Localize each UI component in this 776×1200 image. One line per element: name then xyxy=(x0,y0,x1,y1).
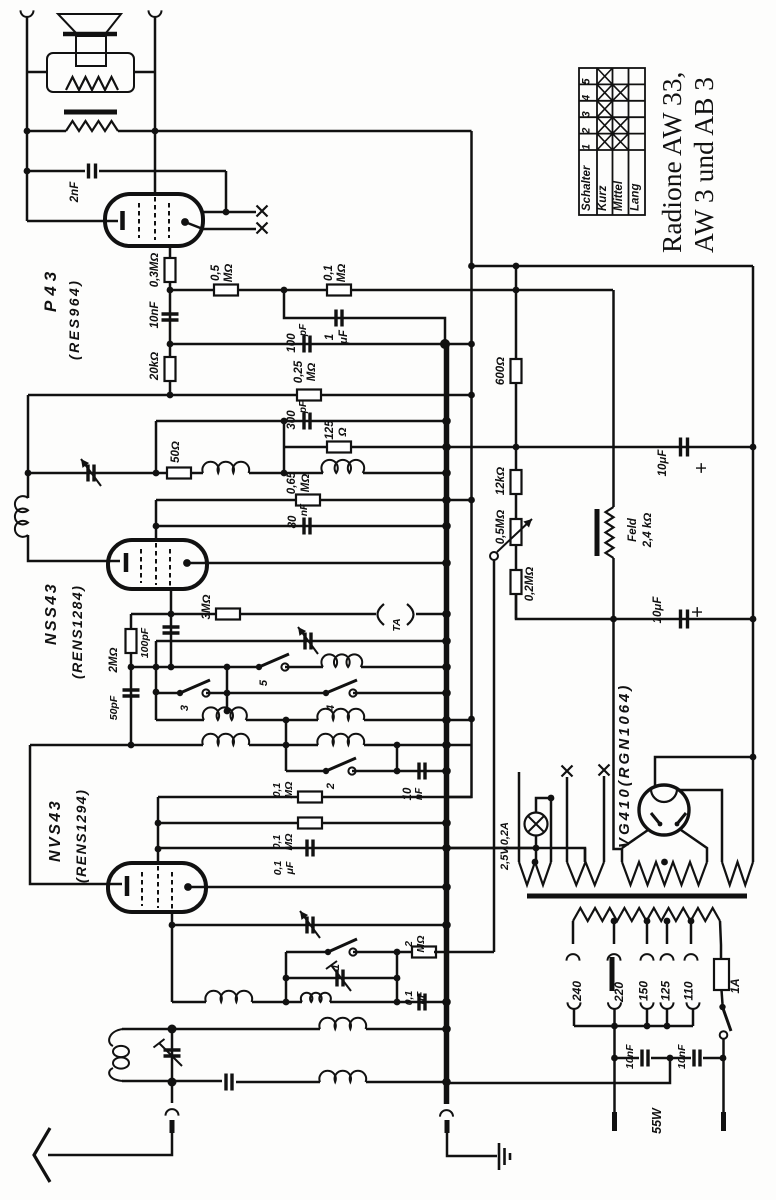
wire speaker right xyxy=(134,71,155,74)
node bus/526 xyxy=(442,522,451,531)
switch 5 xyxy=(256,664,262,670)
wire v516 chain xyxy=(515,266,518,619)
P43 screen wire xyxy=(203,211,256,214)
transformer primary winding xyxy=(573,908,720,921)
output transformer primary winding xyxy=(66,77,118,90)
node bus/720 xyxy=(442,716,451,725)
wire py131 B+ rail to right xyxy=(27,130,66,133)
svg-text:0,5MΩ: 0,5MΩ xyxy=(495,510,507,545)
node 158/849 xyxy=(155,846,162,853)
wire lamp winding left lead xyxy=(518,772,521,862)
wire mains lead 2 xyxy=(613,1026,616,1112)
wire tap 150 xyxy=(646,921,649,944)
wire py849 0,1uF row / lamp ground xyxy=(158,848,585,862)
chassis bus (thick) xyxy=(444,344,450,1104)
node bus/925 xyxy=(442,921,451,930)
node 614/1026 xyxy=(611,1023,618,1030)
capacitor 10nF (band) xyxy=(419,763,425,780)
capacitor 0,1uF osc xyxy=(419,994,425,1011)
resistor 0,65MOhm xyxy=(296,495,320,506)
node bus/473 xyxy=(442,469,451,478)
coil row py720 xyxy=(156,719,204,722)
capacitor 300pF xyxy=(304,413,310,430)
svg-text:150: 150 xyxy=(637,981,651,1001)
terminal top (grid lead) xyxy=(149,10,162,16)
wire NVS anode to bus xyxy=(188,886,447,889)
trimmer capacitor osc xyxy=(337,970,343,987)
svg-text:10nF: 10nF xyxy=(149,301,161,329)
wire v284a xyxy=(283,421,286,447)
wire py1058 10nF row xyxy=(615,1057,640,1060)
rectifier tube VG410 (RGN1064) xyxy=(639,785,689,835)
wire tap 220 xyxy=(613,921,616,944)
node bus/848 xyxy=(442,844,451,853)
capacitor 50pF xyxy=(123,690,140,696)
node bus/667 xyxy=(442,663,451,672)
wire fuse to switch xyxy=(722,990,723,1004)
node bus/887 xyxy=(442,883,451,892)
heater X lead 1 xyxy=(562,766,573,777)
wire tap 110 xyxy=(690,921,693,944)
node 397/1002 xyxy=(394,999,401,1006)
mains terminal 1 xyxy=(721,1112,726,1131)
wire Feld bottom xyxy=(614,558,623,862)
svg-text:MΩ: MΩ xyxy=(415,936,427,953)
svg-text:220: 220 xyxy=(612,982,626,1003)
node 171/614 xyxy=(168,611,175,618)
wire 20k chain xyxy=(169,344,172,395)
wire VG410 anode left xyxy=(622,830,648,848)
svg-text:1A: 1A xyxy=(728,978,742,993)
coil L6 xyxy=(319,1018,366,1029)
tube NSS43 envelope xyxy=(108,540,207,589)
svg-text:2,5V,0,2A: 2,5V,0,2A xyxy=(499,822,511,871)
wire 0,2M to 10uF2 xyxy=(516,594,753,619)
tap socket 110 xyxy=(687,1002,700,1009)
wire NSS grid v156b xyxy=(155,500,158,540)
variable capacitor mixer xyxy=(307,917,313,934)
node 156/667 xyxy=(153,664,160,671)
svg-text:0,1: 0,1 xyxy=(323,265,335,281)
svg-text:0,1: 0,1 xyxy=(272,861,284,876)
svg-text:(RENS1284): (RENS1284) xyxy=(69,585,85,679)
coil L4b xyxy=(317,734,364,745)
wire 2nF to screen xyxy=(225,171,228,212)
svg-text:3: 3 xyxy=(581,111,593,117)
svg-text:NSS43: NSS43 xyxy=(43,582,60,645)
svg-text:20kΩ: 20kΩ xyxy=(149,352,161,381)
svg-text:50pF: 50pF xyxy=(108,695,120,720)
svg-text:4: 4 xyxy=(581,95,593,102)
node W3 center tap xyxy=(661,859,668,866)
wire to ground xyxy=(447,1133,497,1156)
node 131/745 xyxy=(128,742,135,749)
node tap 125 xyxy=(664,918,671,925)
node 753/619 xyxy=(750,616,757,623)
node bus/421 xyxy=(442,417,451,426)
node bus/563 xyxy=(442,559,451,568)
svg-text:0,65: 0,65 xyxy=(286,471,298,494)
node 2nF left xyxy=(24,168,31,175)
svg-text:Schalter: Schalter xyxy=(581,165,593,211)
svg-text:P43: P43 xyxy=(41,267,60,312)
wire py500 0,65M row xyxy=(156,499,447,502)
wire py395 row xyxy=(28,394,472,397)
resistor 0,2MOhm xyxy=(511,570,522,594)
svg-text:10nF: 10nF xyxy=(624,1044,636,1069)
node 286/720 xyxy=(283,717,290,724)
svg-text:pF: pF xyxy=(298,323,309,337)
transformer winding W2 (heater) xyxy=(567,862,604,885)
svg-text:VG410(RGN1064): VG410(RGN1064) xyxy=(616,683,633,848)
node 156/473 xyxy=(153,470,160,477)
node bus/641 xyxy=(442,637,451,646)
switch 3 xyxy=(177,690,183,696)
node 284/421 xyxy=(281,418,288,425)
node 28/473 xyxy=(25,470,32,477)
node tap 150 xyxy=(644,918,651,925)
heater terminal X2 xyxy=(257,223,268,234)
wire py1029 row xyxy=(122,1028,320,1031)
wire NSS cathode xyxy=(28,535,120,561)
svg-text:NVS43: NVS43 xyxy=(47,799,64,862)
svg-text:+: + xyxy=(687,606,709,618)
antenna terminal xyxy=(171,1082,174,1103)
svg-text:2nF: 2nF xyxy=(69,181,81,203)
wire to fuse xyxy=(720,921,721,959)
wire 1uF branch xyxy=(284,290,445,344)
wire v471 (from 131 down) xyxy=(447,131,472,797)
wire py847 heater ground xyxy=(447,847,537,850)
node bus/1002 xyxy=(442,998,451,1007)
wire NSS anode to bus xyxy=(187,562,447,565)
node 172/925 xyxy=(169,922,176,929)
loudspeaker LS cone xyxy=(58,14,121,33)
node 172/1029 xyxy=(168,1025,177,1034)
svg-text:2: 2 xyxy=(403,941,415,948)
svg-text:2: 2 xyxy=(581,128,593,135)
svg-text:0,1: 0,1 xyxy=(271,783,283,798)
svg-text:0,3MΩ: 0,3MΩ xyxy=(149,253,161,288)
wire py266 B+ top xyxy=(472,265,754,268)
capacitor 80nF xyxy=(304,518,310,535)
node 397/745 xyxy=(394,742,401,749)
wire v227 tap xyxy=(226,667,229,712)
svg-text:300: 300 xyxy=(286,410,298,430)
wire v156a xyxy=(155,421,158,473)
node screen junction xyxy=(223,209,230,216)
node 131/667 xyxy=(128,664,135,671)
wire py925 varcap row xyxy=(172,924,447,927)
svg-text:nF: nF xyxy=(299,503,310,516)
resistor 0,1MOhm b xyxy=(298,818,322,829)
node 516/266 xyxy=(513,263,520,270)
wire py978 trimmer row xyxy=(286,977,397,980)
node bus/614 xyxy=(442,610,451,619)
svg-text:125: 125 xyxy=(324,420,336,440)
transformer winding W1 (lamp) xyxy=(519,862,551,885)
node 647/1026 xyxy=(644,1023,651,1030)
node tap 110 xyxy=(688,918,695,925)
bus terminal xyxy=(440,1110,453,1117)
svg-text:Mittel: Mittel xyxy=(613,180,625,211)
P43 cathode xyxy=(120,211,125,230)
variable capacitor (NSS input) xyxy=(27,472,30,475)
wire py1082 row xyxy=(122,1080,222,1083)
svg-text:10μF: 10μF xyxy=(657,449,669,477)
wire pot wiper down xyxy=(493,560,496,952)
node 156/526 xyxy=(153,523,160,530)
wire v286b xyxy=(285,952,288,1002)
svg-text:5: 5 xyxy=(581,78,593,85)
svg-text:110: 110 xyxy=(682,981,696,1000)
field coil Feld 2,4kOhm xyxy=(606,507,614,558)
node 753/757 xyxy=(750,754,757,761)
coil L7 xyxy=(319,1071,366,1082)
wire tap bottoms row xyxy=(574,1025,693,1028)
NSS43 grids (dashed) xyxy=(141,543,170,589)
svg-text:Ω: Ω xyxy=(337,427,349,437)
node 284/290 xyxy=(281,287,288,294)
wire tap 125 xyxy=(666,921,669,944)
switch table (Schalter/Kurz/Mittel/Lang) xyxy=(579,68,645,215)
wire v753 right B+ rail xyxy=(752,266,755,862)
svg-text:100: 100 xyxy=(286,333,298,353)
wire py952 switch1 row xyxy=(286,951,328,954)
svg-text:TA: TA xyxy=(391,618,403,631)
wire NVS outer loop xyxy=(30,745,122,884)
terminal ANT1 top-left xyxy=(21,10,34,16)
resistor 600Ohm xyxy=(511,359,522,383)
transformer core xyxy=(527,894,747,899)
resistor 3MOhm xyxy=(216,609,240,620)
capacitor 100pF xyxy=(304,336,310,353)
node 471/395 xyxy=(468,392,475,399)
node 753/447 xyxy=(750,444,757,451)
wire py641 varcap row xyxy=(156,640,447,643)
wire VG410 filament lead A xyxy=(655,757,753,788)
svg-text:0,2MΩ: 0,2MΩ xyxy=(524,567,536,602)
svg-text:2,4 kΩ: 2,4 kΩ xyxy=(642,513,654,549)
resistor 0,25MOhm xyxy=(297,390,321,401)
P43 anode xyxy=(181,218,189,226)
P43 grids (dashed) xyxy=(139,197,169,240)
node bus top xyxy=(440,339,450,349)
svg-text:10μF: 10μF xyxy=(652,596,664,624)
node 286/745 xyxy=(283,742,290,749)
wire py344 100pF row xyxy=(170,343,472,346)
capacitor 10nF mains b xyxy=(694,1050,700,1067)
fuse 1A xyxy=(714,959,729,990)
output transformer core xyxy=(64,110,117,115)
wire py447 row xyxy=(284,446,753,449)
capacitor 10nF xyxy=(162,314,179,320)
wire VG410 anode right xyxy=(681,830,707,862)
resistor 12kOhm xyxy=(511,470,522,494)
tap socket 150 xyxy=(641,1002,654,1009)
node 158/823 xyxy=(155,820,162,827)
wire speaker left xyxy=(27,71,47,74)
node 670/1058 xyxy=(667,1055,674,1062)
coil L4a xyxy=(202,734,249,745)
tap socket 240 xyxy=(568,1002,581,1009)
svg-text:MΩ: MΩ xyxy=(336,264,348,283)
wire 284 link xyxy=(283,447,286,473)
transformer winding W4 (rect filament) xyxy=(722,862,753,885)
node W1 tap xyxy=(532,859,539,866)
svg-text:55W: 55W xyxy=(650,1107,664,1134)
capacitor 100pF NSS grid xyxy=(163,627,180,633)
capacitor 0,1uF xyxy=(307,840,313,857)
wire NSS bottom xyxy=(170,589,173,667)
node 156/692 xyxy=(153,689,160,696)
node 551/798 xyxy=(548,795,555,802)
switch 1 xyxy=(325,949,331,955)
svg-text:Lang: Lang xyxy=(630,184,642,211)
capacitor 1uF xyxy=(336,310,342,327)
node 471/500 xyxy=(468,497,475,504)
wire py421 300pF row xyxy=(156,420,447,423)
svg-text:pF: pF xyxy=(298,400,309,414)
wire 2M top xyxy=(130,614,133,667)
NVS43 cathode xyxy=(125,876,130,896)
wire VG410 filament lead B xyxy=(679,790,722,862)
svg-text:240: 240 xyxy=(570,981,584,1002)
svg-text:80: 80 xyxy=(287,515,299,528)
antenna coil left xyxy=(15,496,28,537)
resistor 50Ohm xyxy=(167,468,191,479)
node 471/344 xyxy=(468,341,475,348)
wire P43 bottom to R chain xyxy=(169,246,172,259)
wire v613 Feld chain xyxy=(612,290,615,507)
wire py823 0,1M row b xyxy=(158,822,447,825)
wire lamp bottom xyxy=(535,836,538,863)
TA input symbol xyxy=(378,604,385,625)
resistor 2MOhm osc xyxy=(412,947,436,958)
mains terminal 2 xyxy=(612,1112,617,1131)
svg-text:600Ω: 600Ω xyxy=(495,357,507,385)
svg-text:Feld: Feld xyxy=(627,517,639,542)
output transformer frame xyxy=(47,53,134,92)
node 397/952 xyxy=(394,949,401,956)
transformer winding W3 (HV) xyxy=(622,862,707,885)
capacitor 10nF mains a xyxy=(642,1050,648,1067)
node bus/500 xyxy=(442,496,451,505)
pilot lamp 2,5V 0,2A xyxy=(525,813,548,836)
svg-text:3MΩ: 3MΩ xyxy=(201,595,213,620)
tap socket 125 xyxy=(661,1002,674,1009)
resistor 0,1MOhm top xyxy=(327,285,351,296)
ferrite antenna coil xyxy=(109,1029,123,1046)
wire py473 row xyxy=(28,472,167,475)
NVS43 anode xyxy=(184,883,192,891)
node 471/720 xyxy=(468,716,475,723)
coil L1b xyxy=(321,460,364,473)
svg-text:50Ω: 50Ω xyxy=(170,441,182,463)
wire left rail NSS xyxy=(27,395,30,498)
variable capacitor osc xyxy=(305,633,311,650)
svg-text:0,1: 0,1 xyxy=(403,991,415,1006)
svg-text:0,5: 0,5 xyxy=(210,264,222,281)
wire lamp winding right lead xyxy=(550,798,553,862)
node 613/619 xyxy=(610,616,617,623)
switch 4 xyxy=(323,690,329,696)
node 614/1058 xyxy=(611,1055,618,1062)
tube NVS43 envelope xyxy=(108,863,206,912)
tap socket 220 xyxy=(608,1002,621,1009)
node 723/1058 xyxy=(720,1055,727,1062)
coil row py1002 xyxy=(172,1001,206,1004)
svg-text:100pF: 100pF xyxy=(139,627,151,658)
node 171/667 xyxy=(168,664,175,671)
NSS43 anode xyxy=(183,559,191,567)
node tap 220 xyxy=(611,918,618,925)
svg-text:μF: μF xyxy=(338,329,350,345)
svg-text:Radione AW 33,: Radione AW 33, xyxy=(656,72,687,253)
ground symbol xyxy=(498,1143,501,1170)
wire 10nF mid to bus xyxy=(447,1058,671,1083)
svg-text:MΩ: MΩ xyxy=(306,363,318,382)
svg-text:2: 2 xyxy=(325,783,337,790)
node 284/473 xyxy=(281,470,288,477)
wire switch down xyxy=(722,1039,725,1112)
wire NVS grid v158 xyxy=(157,797,160,863)
svg-text:12kΩ: 12kΩ xyxy=(495,467,507,495)
wire NVS bottom xyxy=(171,912,174,1002)
wire v286a xyxy=(285,720,288,771)
node 397/978 xyxy=(394,975,401,982)
tap 220 selector bar xyxy=(610,957,615,991)
wire py797 0,1M row xyxy=(158,796,472,799)
wire lamp top xyxy=(536,798,551,813)
capacitor 2nF xyxy=(27,170,85,173)
coil L2 xyxy=(321,654,362,667)
output transformer secondary winding xyxy=(66,121,118,131)
potentiometer 0,5MOhm xyxy=(511,519,522,545)
svg-text:(RENS1294): (RENS1294) xyxy=(73,789,89,883)
node rail-131 left xyxy=(24,128,31,135)
NVS43 grids (dashed) xyxy=(142,866,172,912)
wire W2 center tap xyxy=(584,848,587,862)
svg-text:(RES964): (RES964) xyxy=(66,279,82,360)
svg-text:μF: μF xyxy=(415,991,427,1005)
resistor 125Ohm xyxy=(327,442,351,453)
resistor 2MOhm NSS xyxy=(126,629,137,653)
node 227/693 xyxy=(224,690,231,697)
node coil tap xyxy=(224,708,231,715)
heater terminal X1 xyxy=(257,206,268,217)
resistor 0,3MOhm xyxy=(165,258,176,282)
wire py526 80nF row xyxy=(156,525,447,528)
svg-text:125: 125 xyxy=(659,981,673,1001)
wire tap 240 xyxy=(572,921,575,944)
wire py667 row xyxy=(131,666,259,669)
mains switch xyxy=(719,1004,725,1010)
svg-text:2MΩ: 2MΩ xyxy=(108,648,120,674)
switch 2 xyxy=(323,768,329,774)
node bus/771 xyxy=(442,767,451,776)
tuning trimmer capacitor xyxy=(171,1029,174,1082)
heater X lead 2 xyxy=(599,765,610,776)
wire py771 switch2 row xyxy=(286,770,326,773)
svg-text:10nF: 10nF xyxy=(676,1044,688,1069)
svg-text:MΩ: MΩ xyxy=(300,474,312,493)
node bus/823 xyxy=(442,819,451,828)
node 290 xyxy=(167,287,174,294)
svg-text:0,25: 0,25 xyxy=(293,360,305,383)
coil L1a xyxy=(202,462,249,473)
wire py290 grid bias row xyxy=(170,289,613,292)
